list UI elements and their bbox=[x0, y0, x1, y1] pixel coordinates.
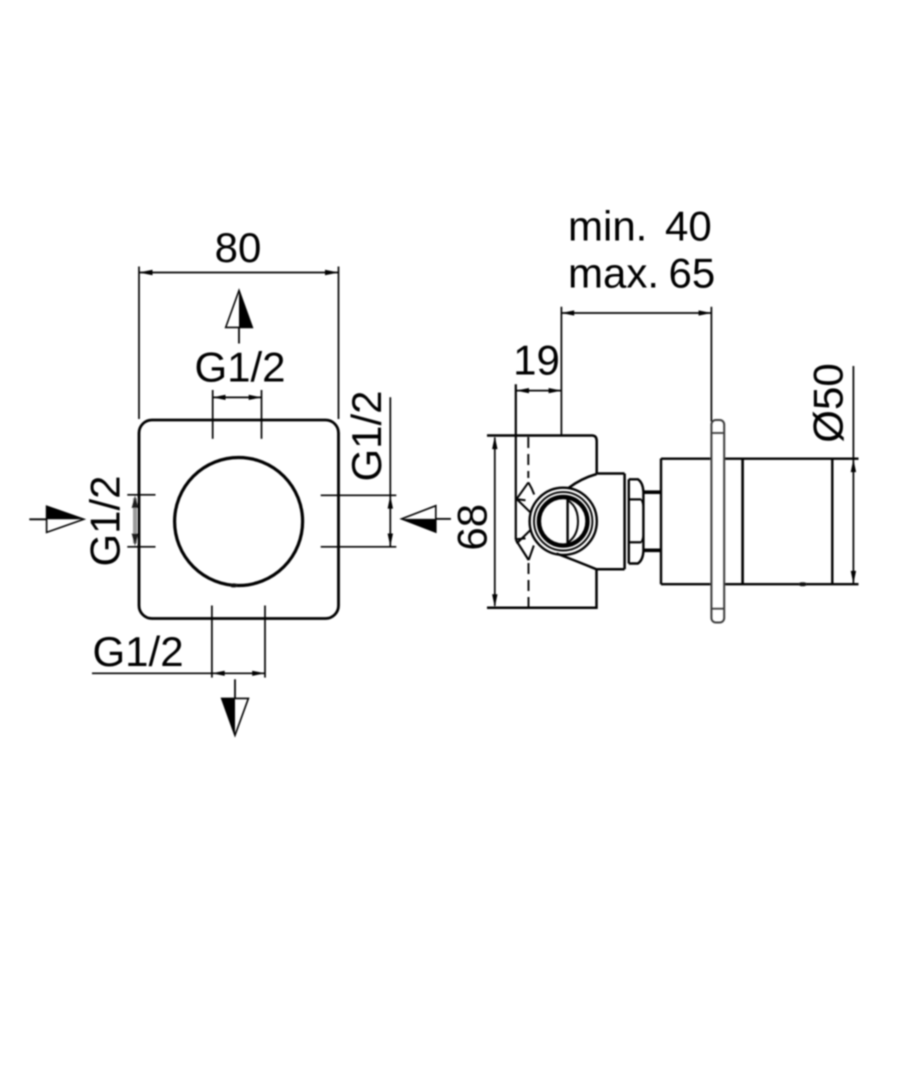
cartridge housing: right edge bbox=[623, 474, 626, 570]
handle cylinder: joint line bbox=[741, 459, 744, 585]
svg-text:min.: min. bbox=[568, 203, 647, 250]
svg-text:G1/2: G1/2 bbox=[82, 475, 129, 566]
trim sleeve: top edge bbox=[643, 490, 661, 494]
dimension 80: extension line right bbox=[338, 267, 340, 420]
spindle slot D-arc bbox=[568, 500, 578, 543]
dimension 68: dimension line bbox=[494, 438, 496, 606]
bottom port: leader line to label bbox=[92, 672, 212, 674]
dimension D50: arrowhead down bbox=[851, 571, 856, 584]
retaining nut: face line upper bbox=[629, 498, 642, 500]
bottom port: tick right bbox=[264, 606, 266, 678]
handle cylinder: left edge bbox=[660, 459, 662, 585]
min/max dimension line bbox=[561, 312, 711, 314]
trim sleeve: bottom edge bbox=[643, 548, 661, 552]
flow arrow bottom (outlet down, half filled) bbox=[222, 679, 249, 735]
hidden centerline (dashed) lower bbox=[528, 563, 530, 607]
cartridge housing: bottom step bbox=[597, 568, 625, 571]
dimension D50: leader/dimension line bbox=[852, 366, 854, 584]
flow arrow right (inlet, points left, half filled) bbox=[402, 506, 451, 532]
retaining nut: mid-face chamfer arcs bbox=[641, 499, 643, 542]
svg-text:80: 80 bbox=[215, 224, 262, 271]
spindle slot chord bbox=[566, 499, 568, 545]
retaining nut: face line lower bbox=[629, 541, 642, 543]
dimension 80: arrowhead left bbox=[139, 270, 153, 275]
dimension 19: dimension line bbox=[516, 390, 561, 392]
dimension D50: arrowhead up bbox=[851, 459, 856, 472]
svg-text:40: 40 bbox=[665, 203, 712, 250]
wall plate (rounded square, front view) bbox=[139, 420, 339, 619]
top port: tick right bbox=[261, 390, 263, 439]
valve body: bottom edge with 68 tick bbox=[487, 569, 597, 607]
left port: tick bottom bbox=[127, 546, 155, 548]
min/max extension line left (wall face) bbox=[560, 307, 562, 436]
wall flange (edge view, rounded slim rect) bbox=[711, 420, 724, 623]
FRONT VIEW GROUP bbox=[29, 224, 451, 735]
svg-text:Ø50: Ø50 bbox=[805, 363, 852, 442]
dimension 68: arrowhead down bbox=[492, 594, 497, 607]
right port: tick top bbox=[321, 494, 397, 496]
knob circle bbox=[175, 458, 303, 586]
right port: leader line with arrows bbox=[388, 397, 393, 546]
boss outer ring bbox=[530, 488, 597, 555]
svg-text:max.: max. bbox=[568, 250, 659, 297]
dimension 68: arrowhead up bbox=[492, 436, 497, 449]
flow arrow left (inlet, points right, half filled) bbox=[29, 506, 84, 532]
wall flange: bottom cap line bbox=[711, 608, 724, 610]
boss inner ring (thick) bbox=[539, 497, 588, 546]
right port: tick bottom bbox=[321, 546, 397, 548]
side port silhouette upper chevron bbox=[517, 482, 535, 512]
dimension 19: arrowhead left bbox=[516, 388, 529, 393]
valve body: left edge (also 19 extension line) bbox=[515, 384, 517, 540]
valve body: lower-left chamfer bbox=[516, 540, 529, 560]
min/max arrowhead left bbox=[561, 310, 574, 315]
svg-text:65: 65 bbox=[669, 250, 716, 297]
flow arrow top (outlet up, half filled) bbox=[226, 291, 253, 344]
svg-text:G1/2: G1/2 bbox=[93, 628, 184, 675]
min/max extension line right (flange face) bbox=[710, 307, 712, 422]
dimension 19: arrowhead right bbox=[549, 388, 562, 393]
svg-text:G1/2: G1/2 bbox=[343, 390, 390, 481]
wall flange: top cap line bbox=[711, 432, 724, 434]
svg-text:19: 19 bbox=[513, 336, 560, 383]
boss-to-housing transition top curve bbox=[569, 474, 597, 488]
handle cylinder: bottom edge with tick (broken at flange) bbox=[661, 583, 859, 585]
dimension 80: extension line left bbox=[138, 267, 140, 420]
svg-text:G1/2: G1/2 bbox=[194, 344, 285, 391]
hidden centerline (dashed) upper bbox=[527, 437, 529, 478]
SIDE VIEW GROUP bbox=[449, 203, 859, 623]
retaining nut: left edge bbox=[628, 479, 630, 563]
handle cylinder: right edge bbox=[831, 459, 833, 585]
scan artifact dot on knob circle bottom bbox=[230, 583, 238, 587]
top port: dimension line with arrows bbox=[213, 395, 262, 400]
dimension 80: arrowhead right bbox=[325, 270, 339, 275]
cartridge housing: top step bbox=[597, 472, 625, 475]
side port silhouette lower chevron bbox=[516, 531, 534, 561]
valve body: top edge with 68 tick bbox=[487, 436, 597, 474]
min/max arrowhead right bbox=[699, 310, 712, 315]
retaining nut: bottom edge and chamfer bbox=[629, 552, 644, 564]
retaining nut: top edge and chamfer bbox=[629, 479, 644, 491]
bottom port: tick left bbox=[211, 606, 213, 678]
bottom port: dimension line with arrows bbox=[212, 671, 265, 676]
scan artifact dot on handle cylinder bottom edge bbox=[798, 582, 807, 586]
left port: tick top bbox=[127, 494, 155, 496]
handle cylinder: top edge with tick (broken at flange) bbox=[661, 458, 859, 460]
dimension 80: dimension line bbox=[139, 272, 339, 274]
boss middle ring bbox=[534, 492, 592, 550]
svg-text:68: 68 bbox=[449, 504, 496, 551]
retaining nut: right edge bbox=[642, 492, 644, 552]
boss-to-housing transition bottom curve bbox=[557, 554, 597, 570]
left port: mini dimension bar with arrows bbox=[132, 496, 139, 547]
top port: tick left bbox=[212, 390, 214, 439]
